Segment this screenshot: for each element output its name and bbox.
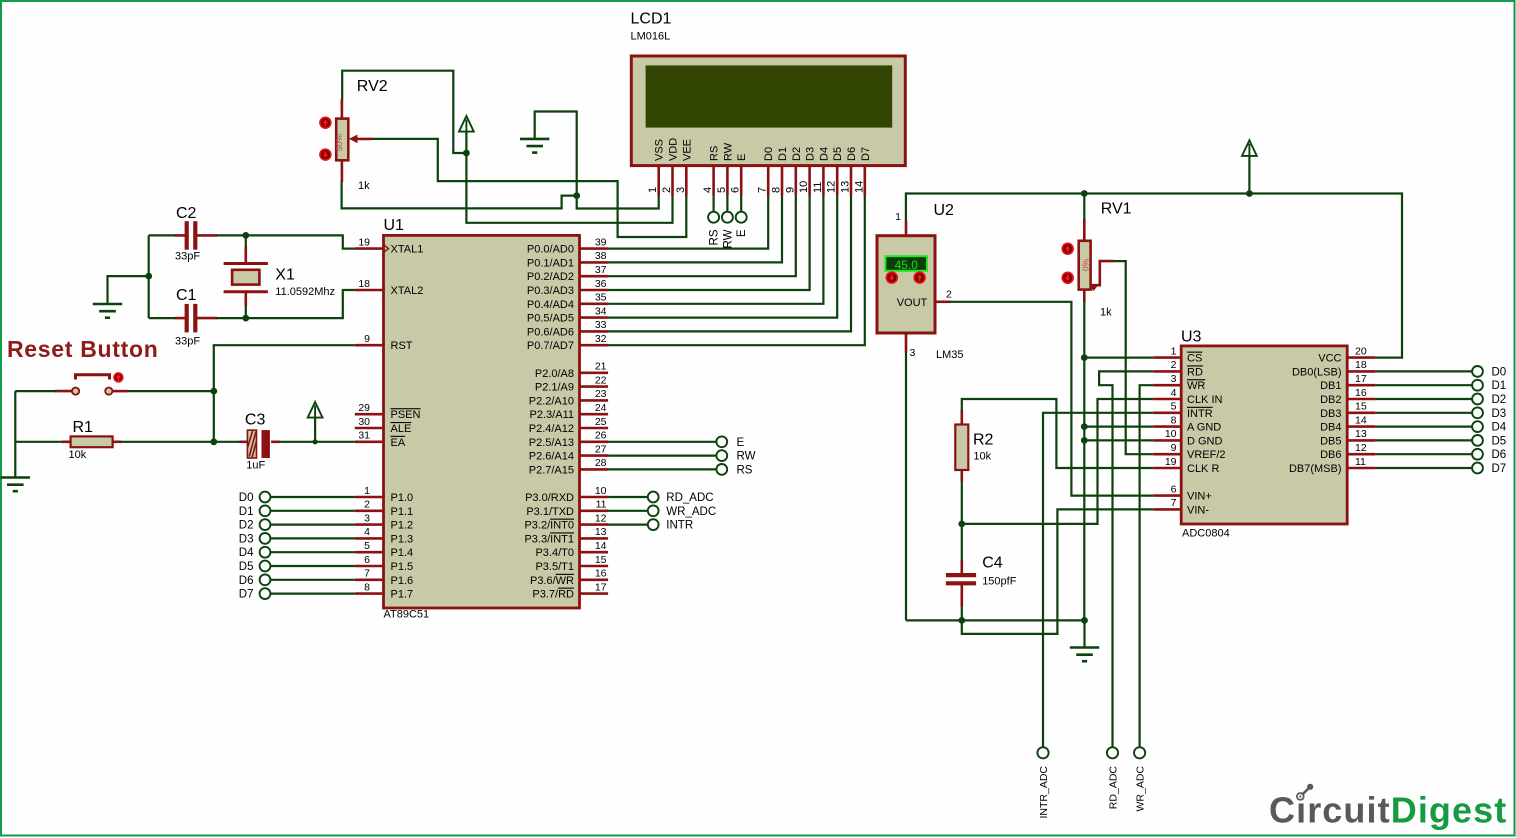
wire U3 VIN- to ground rail <box>962 509 1154 634</box>
svg-text:DB6: DB6 <box>1320 449 1341 461</box>
svg-text:2: 2 <box>946 289 952 301</box>
potentiometer RV1 1k <box>1079 219 1114 303</box>
svg-text:37: 37 <box>595 264 607 276</box>
potentiometer RV2 1k <box>334 99 372 182</box>
svg-text:D2: D2 <box>791 147 803 161</box>
power arrow near C3 <box>308 402 323 418</box>
capacitor C3 1uF electrolytic <box>240 430 280 458</box>
wire U1 to terminal RW <box>608 455 716 457</box>
svg-text:30: 30 <box>358 416 370 428</box>
svg-text:5: 5 <box>364 540 370 552</box>
svg-text:14: 14 <box>1355 414 1367 426</box>
svg-text:19: 19 <box>1165 456 1177 468</box>
svg-text:D4: D4 <box>818 147 830 161</box>
svg-text:4: 4 <box>1171 387 1177 399</box>
CircuitDigest logo <box>1269 784 1507 831</box>
wire ground net to U3 D GND <box>1084 439 1153 441</box>
svg-text:3: 3 <box>910 347 916 359</box>
svg-text:DB7(MSB): DB7(MSB) <box>1289 463 1342 475</box>
svg-text:P0.3/AD3: P0.3/AD3 <box>527 285 574 297</box>
svg-text:RST: RST <box>391 340 413 352</box>
svg-text:6: 6 <box>730 187 742 193</box>
svg-text:13: 13 <box>1355 428 1367 440</box>
wire R1 to RST node <box>121 441 214 443</box>
wire LCD E pin6 to terminal <box>740 196 742 213</box>
svg-text:D0: D0 <box>763 147 775 161</box>
svg-text:33: 33 <box>595 319 607 331</box>
terminal node D4 to U1 P1.4 <box>239 547 355 559</box>
svg-text:RS: RS <box>737 464 753 476</box>
wire U3 RD to terminal RD_ADC <box>1099 371 1153 747</box>
wire U3 WR to terminal WR_ADC <box>1140 385 1154 747</box>
terminal node D0 right <box>1472 366 1483 377</box>
svg-text:D5: D5 <box>239 561 254 573</box>
wire U3 DB3 to terminal D3 <box>1375 412 1472 414</box>
svg-text:12: 12 <box>595 512 607 524</box>
terminal node D5 to U1 P1.5 <box>239 561 355 573</box>
wire U3 DB0 to terminal D0 <box>1375 370 1472 372</box>
wire U1 to terminal RS <box>608 468 716 470</box>
svg-text:31: 31 <box>358 430 370 442</box>
junction node VSS/ground <box>573 192 580 199</box>
svg-text:DB2: DB2 <box>1320 394 1341 406</box>
terminal node D3 to U1 P1.3 <box>239 533 355 545</box>
LCD display LCD1 LM016L <box>631 56 905 166</box>
wire U1 P0.0 to LCD D0 <box>608 196 768 249</box>
svg-text:7: 7 <box>364 568 370 580</box>
svg-text:4: 4 <box>702 187 714 193</box>
RV2 adjust buttons <box>320 117 331 128</box>
svg-text:P1.1: P1.1 <box>391 506 414 518</box>
svg-text:C2: C2 <box>176 205 197 222</box>
wire U3 DB6 to terminal D6 <box>1375 453 1472 455</box>
wire to bottom ground symbol <box>1083 620 1085 647</box>
svg-text:P1.6: P1.6 <box>391 575 414 587</box>
svg-text:28: 28 <box>595 457 607 469</box>
svg-text:5: 5 <box>716 187 728 193</box>
terminal node D0 to U1 P1.0 <box>239 492 355 504</box>
junction X1 bottom <box>242 315 249 322</box>
svg-text:32: 32 <box>595 333 607 345</box>
svg-text:9: 9 <box>364 333 370 345</box>
svg-text:21: 21 <box>595 361 607 373</box>
svg-text:2: 2 <box>364 499 370 511</box>
svg-text:12: 12 <box>1355 442 1367 454</box>
wire U1 to terminal RD_ADC <box>608 496 648 498</box>
svg-text:INTR: INTR <box>1187 408 1213 420</box>
wire U3 DB1 to terminal D1 <box>1375 384 1472 386</box>
svg-text:3: 3 <box>675 187 687 193</box>
terminal node RW <box>716 450 727 461</box>
wire to U1 RST pin <box>214 345 355 391</box>
wire U1 P0.5 to LCD D5 <box>608 196 837 318</box>
svg-text:RV1: RV1 <box>1101 201 1132 218</box>
svg-text:D6: D6 <box>239 575 254 587</box>
svg-text:8: 8 <box>771 187 783 193</box>
svg-text:13: 13 <box>595 526 607 538</box>
wire left side of caps <box>148 235 150 318</box>
svg-text:39: 39 <box>595 236 607 248</box>
svg-text:D0: D0 <box>1492 366 1507 378</box>
wire U3 DB5 to terminal D5 <box>1375 439 1472 441</box>
svg-text:VSS: VSS <box>654 139 666 161</box>
terminal node D3 right <box>1472 407 1483 418</box>
U2 pin 1 <box>905 221 908 236</box>
svg-text:4: 4 <box>364 526 370 538</box>
svg-text:WR_ADC: WR_ADC <box>666 506 716 518</box>
svg-text:X1: X1 <box>275 267 295 284</box>
U2 adjust buttons <box>886 272 897 283</box>
svg-text:11: 11 <box>1355 456 1366 468</box>
svg-text:D6: D6 <box>846 147 858 161</box>
svg-text:7: 7 <box>757 187 769 193</box>
svg-text:P1.7: P1.7 <box>391 589 414 601</box>
svg-text:RW: RW <box>722 142 734 161</box>
svg-text:E: E <box>736 154 748 161</box>
svg-text:1: 1 <box>647 187 659 193</box>
wire C4 top <box>961 524 963 561</box>
svg-text:13: 13 <box>840 181 852 193</box>
wire C2 to XTAL1 <box>149 234 176 236</box>
wire RV2 wiper to LCD VEE pin3 <box>371 139 686 237</box>
junction R1/C3 <box>210 438 217 445</box>
wire button left to ground rail <box>15 390 56 392</box>
svg-text:AT89C51: AT89C51 <box>384 609 430 621</box>
wire C3 right to U1 EA <box>279 441 355 443</box>
svg-text:U2: U2 <box>934 202 955 219</box>
svg-text:P0.4/AD4: P0.4/AD4 <box>527 299 574 311</box>
svg-text:XTAL1: XTAL1 <box>391 244 424 256</box>
junction ground rail / ground symbol <box>1081 617 1088 624</box>
svg-text:XTAL2: XTAL2 <box>391 285 424 297</box>
svg-text:D2: D2 <box>239 520 254 532</box>
wire VOUT to U3 VIN+ <box>950 302 1153 496</box>
wire U1 P0.7 to LCD D7 <box>608 196 865 346</box>
svg-text:2: 2 <box>1171 359 1177 371</box>
wire U1 to terminal WR_ADC <box>608 510 648 512</box>
svg-text:150pfF: 150pfF <box>982 576 1017 588</box>
wire U3 CLK IN down to R2 bottom node <box>962 399 1154 524</box>
svg-text:P0.6/AD6: P0.6/AD6 <box>527 326 574 338</box>
svg-text:INTR_ADC: INTR_ADC <box>1038 766 1050 819</box>
svg-text:2: 2 <box>661 187 673 193</box>
LCD1 pins 1-14 <box>647 166 865 196</box>
svg-text:D GND: D GND <box>1187 435 1223 447</box>
svg-text:CS: CS <box>1187 353 1202 365</box>
terminal node RS <box>716 464 727 475</box>
svg-text:P3.3/INT1: P3.3/INT1 <box>524 533 574 545</box>
wire U2 pin3 to ground rail <box>905 352 907 620</box>
wire RV1 top to VCC rail <box>1083 194 1085 220</box>
terminal node RD_ADC <box>648 492 659 503</box>
push button (reset) <box>55 373 128 395</box>
svg-text:C3: C3 <box>245 412 266 429</box>
svg-text:P0.2/AD2: P0.2/AD2 <box>527 271 574 283</box>
svg-text:16: 16 <box>595 568 607 580</box>
svg-text:P3.1/TXD: P3.1/TXD <box>526 506 574 518</box>
wire to ground <box>108 276 149 303</box>
svg-text:P3.2/INT0: P3.2/INT0 <box>524 520 574 532</box>
capacitor C2 33pF <box>175 221 218 250</box>
svg-text:11.0592Mhz: 11.0592Mhz <box>275 286 335 298</box>
wire button right to RST node <box>128 390 214 392</box>
terminal node D2 to U1 P1.2 <box>239 519 355 531</box>
terminal node RW <box>722 212 733 223</box>
svg-text:23: 23 <box>595 388 607 400</box>
power VCC arrow symbol <box>459 116 474 132</box>
svg-text:E: E <box>736 229 748 237</box>
svg-text:P3.7/RD: P3.7/RD <box>532 589 574 601</box>
svg-text:9: 9 <box>1171 442 1177 454</box>
svg-text:D3: D3 <box>805 147 817 161</box>
wire VCC arrow to LCD VDD pin2 and RV2 top <box>466 131 672 222</box>
svg-text:P2.3/A11: P2.3/A11 <box>530 409 574 421</box>
svg-text:P3.6/WR: P3.6/WR <box>530 575 574 587</box>
svg-text:LCD1: LCD1 <box>631 11 672 28</box>
wire U1 to terminal INTR <box>608 523 648 525</box>
svg-text:D3: D3 <box>239 533 254 545</box>
svg-text:1uF: 1uF <box>246 460 265 472</box>
svg-text:VREF/2: VREF/2 <box>1187 449 1226 461</box>
svg-text:35: 35 <box>595 292 607 304</box>
svg-text:VOUT: VOUT <box>897 297 928 309</box>
svg-text:50%: 50% <box>334 134 344 151</box>
svg-text:R1: R1 <box>73 419 94 436</box>
svg-text:WR: WR <box>1187 380 1205 392</box>
ground symbol near crystal <box>93 304 122 318</box>
terminal node E <box>716 436 727 447</box>
terminal node D2 right <box>1472 394 1483 405</box>
svg-text:LM35: LM35 <box>936 349 964 361</box>
svg-text:P2.4/A12: P2.4/A12 <box>529 423 574 435</box>
svg-text:VCC: VCC <box>1318 353 1341 365</box>
terminal node D7 right <box>1472 463 1483 474</box>
resistor R2 10k <box>955 410 968 482</box>
terminal node INTR <box>648 519 659 530</box>
junction ground branch <box>145 273 152 280</box>
svg-text:27: 27 <box>595 443 607 455</box>
svg-text:P3.0/RXD: P3.0/RXD <box>525 492 574 504</box>
svg-text:33pF: 33pF <box>175 251 200 263</box>
svg-text:P2.0/A8: P2.0/A8 <box>535 368 574 380</box>
svg-text:22: 22 <box>595 374 607 386</box>
svg-text:PSEN: PSEN <box>391 409 421 421</box>
svg-text:D7: D7 <box>860 147 872 161</box>
wire U1 P0.4 to LCD D4 <box>608 196 823 304</box>
wire C1 to XTAL2 <box>149 317 176 319</box>
svg-text:10: 10 <box>1165 428 1177 440</box>
terminal node D6 right <box>1472 449 1483 460</box>
RV1 adjust buttons <box>1062 243 1073 254</box>
svg-text:D1: D1 <box>1492 380 1507 392</box>
wire RV1 wiper to U3 VREF/2 <box>1113 261 1153 454</box>
wire U1 P0.6 to LCD D6 <box>608 196 851 332</box>
wire LCD RS pin4 to terminal <box>712 196 714 213</box>
junction ground/D GND <box>1081 437 1088 444</box>
svg-text:R2: R2 <box>973 432 994 449</box>
svg-text:1: 1 <box>895 211 901 223</box>
svg-text:U1: U1 <box>384 217 405 234</box>
svg-text:RD_ADC: RD_ADC <box>1107 766 1119 810</box>
junction X1 top <box>242 232 249 239</box>
svg-text:P0.5/AD5: P0.5/AD5 <box>527 313 574 325</box>
terminal node D7 to U1 P1.7 <box>239 588 355 600</box>
capacitor C1 33pF <box>175 304 218 333</box>
svg-text:6: 6 <box>1171 483 1177 495</box>
wire U1 P0.2 to LCD D2 <box>608 196 796 277</box>
IC U3 ADC0804 <box>1153 345 1375 524</box>
svg-text:10: 10 <box>798 181 810 193</box>
svg-text:D4: D4 <box>239 547 254 559</box>
svg-text:D1: D1 <box>777 147 789 161</box>
svg-text:VDD: VDD <box>668 138 680 161</box>
svg-text:P1.3: P1.3 <box>391 533 414 545</box>
svg-text:VIN+: VIN+ <box>1187 491 1212 503</box>
terminal node WR_ADC <box>1134 747 1145 758</box>
junction VCC node <box>463 150 470 157</box>
svg-text:RW: RW <box>722 229 734 248</box>
svg-text:LM016L: LM016L <box>631 31 671 43</box>
sensor U2 LM35 <box>877 236 935 333</box>
svg-text:29: 29 <box>358 402 370 414</box>
svg-text:P0.0/AD0: P0.0/AD0 <box>527 244 574 256</box>
terminal node RS <box>708 212 719 223</box>
svg-text:D7: D7 <box>1492 463 1507 475</box>
svg-text:P2.7/A15: P2.7/A15 <box>529 464 574 476</box>
svg-text:38: 38 <box>595 250 607 262</box>
wire R2 bottom <box>961 482 963 524</box>
svg-text:33pF: 33pF <box>175 336 200 348</box>
svg-text:CLK R: CLK R <box>1187 463 1219 475</box>
wire ground net to U3 CS <box>1084 357 1153 359</box>
svg-text:18: 18 <box>1355 359 1367 371</box>
svg-text:WR_ADC: WR_ADC <box>1134 766 1146 812</box>
junction RV1/CS <box>1081 354 1088 361</box>
junction C4/ground rail <box>958 617 965 624</box>
terminal node D5 right <box>1472 435 1483 446</box>
svg-text:14: 14 <box>853 181 865 193</box>
svg-text:D4: D4 <box>1492 422 1507 434</box>
ground symbol near LCD <box>520 139 549 153</box>
wire RV2 bottom to ground node <box>342 181 577 209</box>
svg-text:ALE: ALE <box>391 423 412 435</box>
crystal X1 11.0592Mhz <box>224 247 268 307</box>
wire U3 DB7 to terminal D7 <box>1375 467 1472 469</box>
svg-text:11: 11 <box>812 182 824 193</box>
wire C3 left to RST node <box>214 441 240 443</box>
svg-text:P1.4: P1.4 <box>391 547 414 559</box>
wire RV1 bottom to ground rail <box>1083 302 1085 621</box>
svg-text:18: 18 <box>358 278 370 290</box>
svg-text:45.0: 45.0 <box>895 258 919 272</box>
svg-text:3: 3 <box>1171 373 1177 385</box>
svg-text:10: 10 <box>595 485 607 497</box>
svg-text:20: 20 <box>1355 345 1367 357</box>
svg-text:D2: D2 <box>1492 394 1507 406</box>
wire U1 P0.1 to LCD D1 <box>608 196 782 263</box>
svg-text:24: 24 <box>595 402 607 414</box>
svg-text:Reset Button: Reset Button <box>7 336 159 362</box>
resistor R1 10k <box>15 436 121 447</box>
svg-text:10k: 10k <box>973 451 991 463</box>
ground symbol bottom left <box>1 478 30 492</box>
wire U3 DB2 to terminal D2 <box>1375 398 1472 400</box>
svg-text:DB1: DB1 <box>1320 380 1341 392</box>
svg-text:P2.2/A10: P2.2/A10 <box>529 395 574 407</box>
svg-text:RW: RW <box>737 451 756 463</box>
wire RST node down to R1 <box>213 391 215 442</box>
svg-text:17: 17 <box>1355 373 1367 385</box>
svg-text:9: 9 <box>784 187 796 193</box>
svg-text:36: 36 <box>595 278 607 290</box>
svg-text:D3: D3 <box>1492 408 1507 420</box>
power VCC arrow top right <box>1242 140 1257 156</box>
svg-text:A GND: A GND <box>1187 422 1221 434</box>
terminal node D1 to U1 P1.1 <box>239 505 355 517</box>
svg-text:DB0(LSB): DB0(LSB) <box>1292 366 1342 378</box>
svg-text:1k: 1k <box>358 180 370 192</box>
svg-text:RD_ADC: RD_ADC <box>666 492 713 504</box>
svg-text:34: 34 <box>595 305 607 317</box>
wire U1 P0.3 to LCD D3 <box>608 196 810 291</box>
svg-text:INTR: INTR <box>666 520 693 532</box>
wire U3 INTR to terminal INTR_ADC <box>1043 413 1153 747</box>
svg-text:3: 3 <box>364 512 370 524</box>
U2 pin 3 <box>905 333 908 353</box>
capacitor C4 150pfF <box>946 561 976 608</box>
IC U1 AT89C51 <box>355 235 608 608</box>
svg-text:EA: EA <box>391 437 406 449</box>
svg-text:1k: 1k <box>1100 307 1112 319</box>
terminal node RD_ADC <box>1107 747 1118 758</box>
svg-text:DB5: DB5 <box>1320 435 1341 447</box>
svg-text:8: 8 <box>364 581 370 593</box>
svg-text:16: 16 <box>1355 387 1367 399</box>
wire VCC rail <box>906 194 1402 358</box>
svg-text:D5: D5 <box>1492 435 1507 447</box>
junction VCC/arrow <box>1246 190 1253 197</box>
wire ground to node VSS <box>535 112 659 209</box>
svg-text:D6: D6 <box>1492 449 1507 461</box>
wire C4 bottom to ground rail <box>961 607 963 621</box>
svg-text:P2.5/A13: P2.5/A13 <box>529 437 574 449</box>
svg-text:C1: C1 <box>176 287 197 304</box>
svg-text:P3.4/T0: P3.4/T0 <box>535 547 574 559</box>
svg-text:17: 17 <box>595 581 607 593</box>
svg-text:P2.1/A9: P2.1/A9 <box>535 382 574 394</box>
svg-text:D5: D5 <box>832 147 844 161</box>
svg-text:25: 25 <box>595 416 607 428</box>
svg-text:C4: C4 <box>982 555 1003 572</box>
svg-text:D0: D0 <box>239 492 254 504</box>
U2 pin 2 VOUT <box>935 300 950 303</box>
svg-text:8: 8 <box>1171 414 1177 426</box>
svg-text:P1.2: P1.2 <box>391 520 414 532</box>
svg-text:10k: 10k <box>69 449 87 461</box>
terminal node INTR_ADC <box>1037 747 1048 758</box>
wire LCD RW pin5 to terminal <box>726 196 728 213</box>
terminal node D6 to U1 P1.6 <box>239 574 355 586</box>
svg-text:U3: U3 <box>1181 329 1202 346</box>
svg-text:0%: 0% <box>1081 258 1091 271</box>
svg-text:P0.7/AD7: P0.7/AD7 <box>527 340 574 352</box>
svg-text:P1.5: P1.5 <box>391 561 414 573</box>
svg-text:RD: RD <box>1187 366 1203 378</box>
wire U1 to terminal E <box>608 441 716 443</box>
junction R2/C4/CLKIN <box>958 521 965 528</box>
svg-text:D7: D7 <box>239 589 254 601</box>
svg-text:CircuitDigest: CircuitDigest <box>1269 790 1507 831</box>
